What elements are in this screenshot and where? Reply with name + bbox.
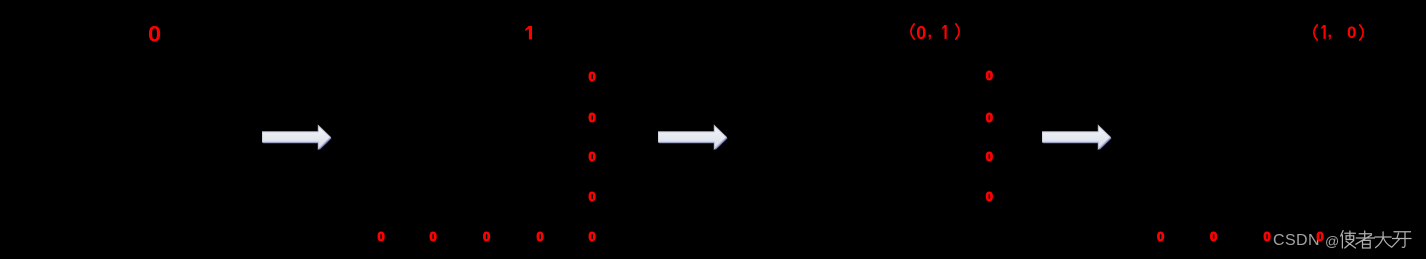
zero col1-r3 xyxy=(589,150,596,163)
label (1, 0) (top of section 4) xyxy=(1313,24,1318,41)
arrow 3 xyxy=(1042,124,1113,151)
zero row2-c3 xyxy=(1264,230,1271,243)
zero row2-c1 xyxy=(1157,230,1164,243)
zero col1-r1 xyxy=(589,70,596,83)
zero col2-r2 xyxy=(986,111,993,124)
zero row1-c4 xyxy=(537,230,544,243)
zero col2-r1 xyxy=(986,69,993,82)
zero row2-c4 xyxy=(1317,230,1324,243)
zero col2-r4 xyxy=(986,190,993,203)
zero row1-c3 xyxy=(483,230,490,243)
zero row1-c1 xyxy=(378,230,385,243)
label (0, 1) (top of section 3) xyxy=(910,23,915,40)
zero row1-c2 xyxy=(430,230,437,243)
zero col1-r2 xyxy=(589,111,596,124)
zero col2-r3 xyxy=(986,150,993,163)
label 1 (top of section 2) xyxy=(525,26,532,40)
arrow 2 xyxy=(658,124,729,151)
zero row2-c2 xyxy=(1210,230,1217,243)
arrow 1 xyxy=(262,124,333,151)
watermark CSDN@ xyxy=(1273,233,1320,249)
watermark CJK glyphs 使者大牙 (drawn as SVG strokes) xyxy=(1336,230,1412,249)
zero row1-c5 xyxy=(589,230,596,243)
zero col1-r4 xyxy=(589,190,596,203)
label 0 (top of section 1) xyxy=(148,24,161,46)
